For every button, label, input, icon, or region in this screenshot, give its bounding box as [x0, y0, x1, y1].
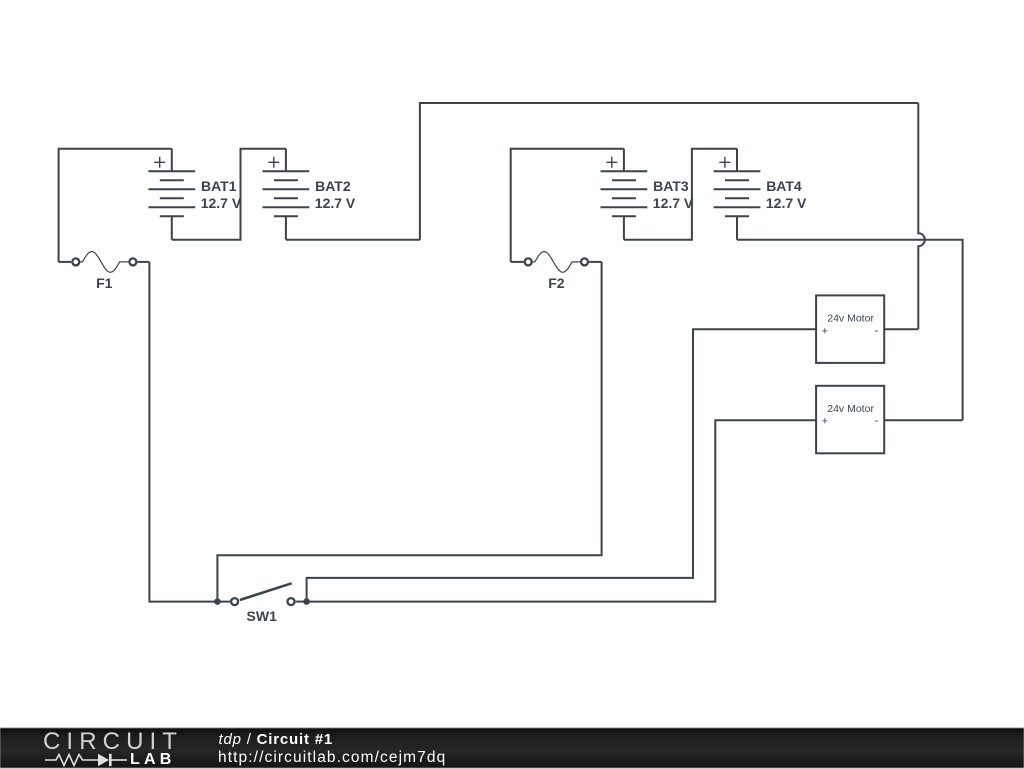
label SW1	[247, 608, 278, 624]
wire switch to motor M1 + terminal	[307, 329, 816, 601]
svg-text:BAT1: BAT1	[201, 178, 237, 194]
junction node right of SW1	[303, 598, 310, 605]
wire motor M2 - to far right vertical	[884, 419, 962, 421]
logo LAB wordmark	[130, 753, 175, 767]
wire F1 left riser and top to BAT1+	[59, 149, 172, 262]
motor M1 box	[816, 295, 884, 363]
svg-text:24v Motor: 24v Motor	[827, 403, 874, 415]
svg-text:-: -	[875, 415, 879, 427]
svg-text:12.7 V: 12.7 V	[653, 195, 694, 211]
motor M2 box	[816, 386, 884, 454]
fuse F1	[59, 252, 150, 273]
wire right vertical with hop over BAT4- wire	[918, 103, 925, 329]
battery BAT1	[148, 149, 195, 240]
svg-text:12.7 V: 12.7 V	[201, 195, 242, 211]
fuse F2	[511, 252, 602, 273]
footer bar	[0, 728, 1024, 768]
label BAT1 value	[201, 178, 242, 211]
switch SW1	[231, 583, 307, 605]
label motor M1	[822, 312, 879, 337]
wire F2 right down and across to switch left junction	[217, 262, 601, 602]
wire motor M1 - to right vertical	[884, 328, 918, 330]
wire BAT1- to BAT2+ link	[172, 149, 286, 240]
svg-text:BAT3: BAT3	[653, 178, 689, 194]
label F1	[96, 275, 113, 291]
svg-text:BAT4: BAT4	[766, 178, 802, 194]
wire switch to motor M2 + terminal	[307, 420, 816, 601]
wire F1 right down to switch row	[149, 262, 230, 602]
svg-text:12.7 V: 12.7 V	[315, 195, 356, 211]
wire top net: BAT2- riser up and across to right column	[420, 103, 918, 240]
battery BAT2	[263, 149, 310, 240]
svg-text:24v Motor: 24v Motor	[827, 312, 874, 324]
wire BAT2- bottom to riser	[286, 239, 420, 241]
svg-text:BAT2: BAT2	[315, 178, 351, 194]
svg-text:F2: F2	[548, 275, 565, 291]
battery BAT4	[714, 149, 761, 240]
svg-text:12.7 V: 12.7 V	[766, 195, 807, 211]
logo CIRCUIT wordmark	[43, 732, 183, 751]
wire BAT4- bottom across to far right column	[737, 240, 963, 421]
footer url text	[218, 749, 446, 766]
label motor M2	[822, 403, 879, 428]
footer title text	[219, 732, 334, 748]
battery BAT3	[601, 149, 648, 240]
label BAT4 value	[766, 178, 807, 211]
svg-text:SW1: SW1	[247, 608, 278, 624]
svg-text:F1: F1	[96, 275, 113, 291]
svg-text:-: -	[875, 325, 879, 337]
wire F2 left riser and top to BAT3+	[511, 149, 624, 262]
svg-text:+: +	[822, 416, 828, 428]
svg-text:+: +	[822, 325, 828, 337]
label BAT3 value	[653, 178, 694, 211]
wire BAT3- to BAT4+ link	[624, 149, 737, 240]
label BAT2 value	[315, 178, 356, 211]
logo resistor-diode glyph	[44, 751, 130, 769]
junction node left of SW1	[214, 598, 221, 605]
label F2	[548, 275, 565, 291]
